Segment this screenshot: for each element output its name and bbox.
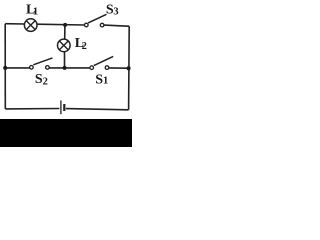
svg-text:2: 2	[43, 76, 48, 87]
svg-text:1: 1	[103, 76, 108, 87]
svg-text:3: 3	[113, 7, 118, 18]
svg-text:2: 2	[82, 41, 87, 52]
svg-text:1: 1	[33, 7, 38, 18]
